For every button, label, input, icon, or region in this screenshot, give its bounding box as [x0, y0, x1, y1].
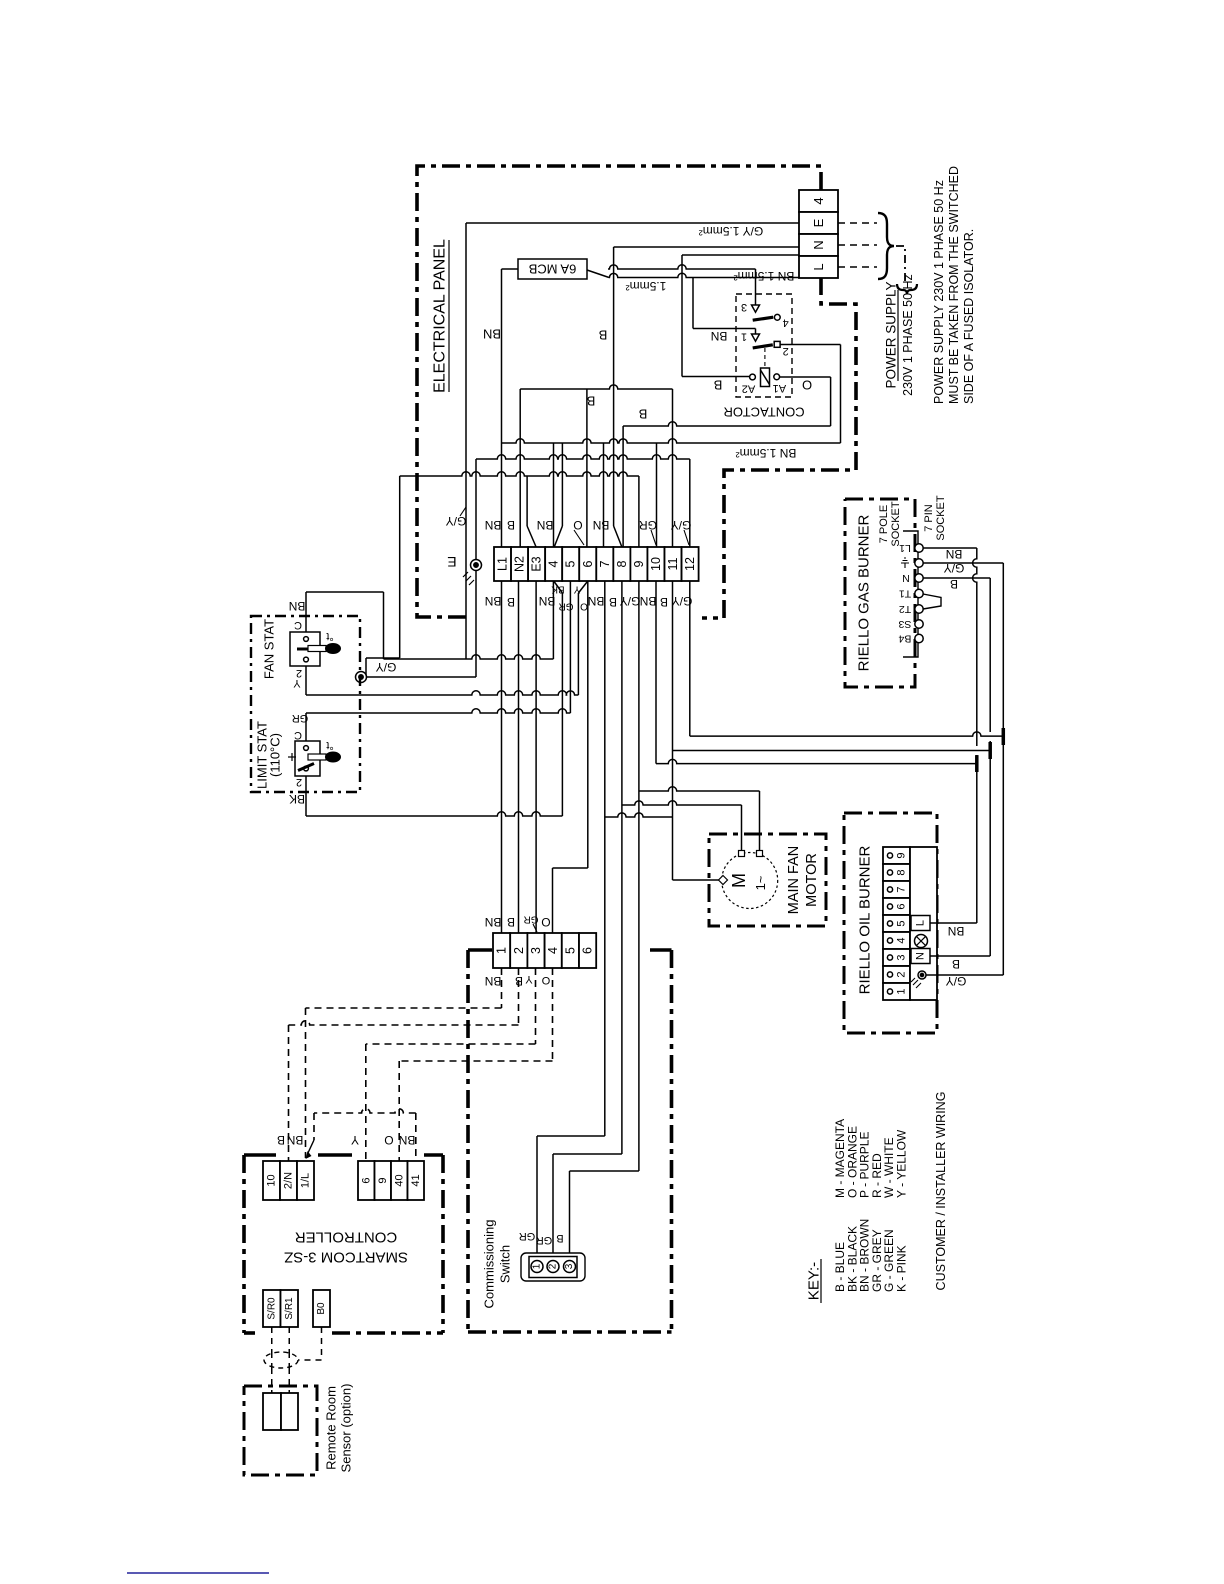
svg-text:ELECTRICAL PANEL: ELECTRICAL PANEL: [432, 239, 449, 393]
dashed wires to sensor: [271, 1327, 273, 1352]
svg-text:T2: T2: [899, 603, 911, 615]
svg-text:3: 3: [529, 947, 543, 954]
wire bus 659: [384, 655, 554, 659]
commissioning terminals: [531, 1261, 543, 1273]
riello oil burner dash-dot box: [844, 813, 937, 1033]
svg-text:CUSTOMER / INSTALLER WIRING: CUSTOMER / INSTALLER WIRING: [934, 1092, 948, 1291]
svg-text:Commissioning: Commissioning: [482, 1220, 497, 1309]
wire cell4 top drop: [553, 443, 555, 547]
dashed link 41 to 1/L: [314, 1109, 416, 1113]
svg-text:RIELLO OIL BURNER: RIELLO OIL BURNER: [857, 846, 874, 995]
main fan motor circle: [722, 853, 778, 909]
svg-text:GR: GR: [536, 1234, 553, 1246]
wire E3 down to strip2 cell3: [535, 581, 537, 933]
commissioning switch body: [521, 1253, 585, 1281]
gas T1 T2 jumper: [923, 594, 941, 609]
oil lamp: [915, 935, 928, 948]
wire earth link to ring: [362, 676, 476, 678]
svg-text:K - PINK: K - PINK: [895, 1245, 909, 1292]
svg-text:B: B: [556, 1232, 563, 1244]
svg-text:B: B: [507, 595, 515, 609]
svg-text:N: N: [902, 572, 910, 584]
svg-text:BN: BN: [287, 1133, 304, 1147]
svg-text:2: 2: [512, 947, 526, 954]
fan stat switch: [290, 632, 320, 666]
wire bus Hd earth lower: [400, 472, 639, 476]
svg-text:SOCKET: SOCKET: [890, 501, 902, 547]
gas socket bracket: [903, 531, 918, 657]
svg-text:A2: A2: [742, 383, 755, 395]
wire N terminal to B drop: [614, 246, 799, 248]
svg-text:3: 3: [741, 301, 747, 313]
svg-text:MUST BE TAKEN FROM THE SWITCHE: MUST BE TAKEN FROM THE SWITCHED: [947, 166, 961, 404]
wire L1 down to strip2 cell1: [501, 581, 503, 933]
svg-text:B: B: [277, 1133, 285, 1147]
svg-text:BN: BN: [593, 518, 610, 532]
svg-text:BK: BK: [289, 792, 305, 806]
wire oil earth: [926, 974, 1003, 976]
svg-text:BN: BN: [537, 518, 554, 532]
svg-text:7: 7: [598, 560, 612, 567]
wire cell6 O down to strip2 cell4: [587, 581, 589, 868]
svg-text:8: 8: [615, 560, 629, 567]
svg-text:GR: GR: [524, 914, 539, 925]
svg-text:B: B: [952, 957, 960, 971]
smartcom dash-dot box: [244, 1153, 276, 1157]
svg-text:E: E: [811, 218, 826, 227]
wire MCB to L1 vertical: [502, 268, 519, 270]
svg-text:L1: L1: [899, 542, 911, 554]
svg-text:G/Y: G/Y: [944, 561, 965, 575]
svg-text:6: 6: [581, 947, 595, 954]
svg-text:B4: B4: [898, 633, 911, 645]
contactor coil A2 A1: [761, 368, 770, 387]
svg-text:Y: Y: [293, 677, 301, 689]
power supply dashed leads: [838, 222, 877, 224]
smartcom strip B: [358, 1161, 375, 1200]
svg-text:GR: GR: [519, 1230, 536, 1242]
svg-text:4: 4: [896, 937, 908, 943]
power terminal strip L N E 4: [799, 190, 838, 212]
earth ring G/Y: [356, 672, 367, 683]
svg-text:BN: BN: [485, 974, 502, 988]
svg-text:C: C: [294, 729, 302, 741]
svg-text:2: 2: [296, 776, 302, 788]
contactor linkage: [764, 348, 766, 368]
svg-text:N2: N2: [513, 556, 527, 572]
svg-text:5: 5: [564, 560, 578, 567]
svg-text:G/Y 1.5mm²: G/Y 1.5mm²: [699, 224, 763, 238]
wire contactor feed: [608, 265, 756, 269]
limit stat switch: [295, 741, 320, 776]
svg-text:Sensor (option): Sensor (option): [339, 1384, 354, 1473]
svg-text:(110°C): (110°C): [268, 733, 283, 777]
svg-text:SMARTCOM 3-SZ: SMARTCOM 3-SZ: [284, 1249, 408, 1266]
wire burner BN vertical: [973, 548, 977, 746]
wire bus H2 coil to cell 8: [623, 422, 831, 426]
svg-text:O: O: [541, 974, 550, 986]
svg-text:Y: Y: [525, 973, 533, 985]
earth stud E: [475, 459, 477, 677]
svg-text:41: 41: [410, 1174, 422, 1186]
dashed wire strip2-1 to 1/L: [501, 968, 503, 1008]
wire cell12 earth to burners: [689, 581, 691, 736]
svg-text:C: C: [294, 619, 302, 631]
svg-text:2: 2: [548, 1263, 559, 1269]
svg-text:POWER SUPPLY: POWER SUPPLY: [884, 281, 899, 388]
svg-text:°t: °t: [326, 630, 333, 642]
svg-text:S3: S3: [898, 618, 911, 630]
svg-text:M: M: [729, 873, 749, 888]
svg-text:SOCKET: SOCKET: [935, 495, 947, 541]
main terminal strip L1-12: [494, 547, 511, 581]
svg-text:B: B: [714, 378, 723, 393]
svg-text:10: 10: [649, 557, 663, 571]
svg-text:O: O: [580, 601, 588, 612]
svg-text:BN 1.5mm²: BN 1.5mm²: [736, 446, 797, 460]
svg-text:BN 1.5mm²: BN 1.5mm²: [734, 269, 795, 283]
svg-text:E3: E3: [530, 556, 544, 571]
svg-text:4: 4: [547, 560, 561, 567]
svg-text:1: 1: [532, 1263, 543, 1269]
svg-text:BN: BN: [399, 1133, 416, 1147]
svg-text:B: B: [587, 394, 596, 409]
svg-text:2/N: 2/N: [283, 1172, 295, 1189]
power supply dash-dot link: [896, 246, 905, 283]
wire burner B vertical: [989, 578, 991, 732]
svg-text:G/Y: G/Y: [376, 660, 397, 674]
svg-text:B: B: [599, 328, 608, 343]
svg-text:7: 7: [896, 886, 908, 892]
contactor contact 1-2: [755, 329, 757, 335]
wire bus Ha switched live: [502, 439, 841, 443]
svg-text:GR: GR: [639, 518, 657, 532]
svg-text:B: B: [507, 518, 515, 532]
svg-text:BN: BN: [588, 594, 605, 608]
svg-text:O: O: [384, 1133, 393, 1147]
dashed wire strip2-3 to 6: [535, 968, 537, 1044]
svg-text:BN: BN: [711, 329, 728, 343]
svg-text:GR: GR: [559, 601, 574, 612]
svg-text:9: 9: [632, 560, 646, 567]
wire motor feeds: [605, 813, 673, 817]
terminal strip 1-6: [493, 933, 510, 968]
svg-text:BN: BN: [485, 915, 502, 929]
wire limit stat C: [305, 713, 307, 741]
svg-text:8: 8: [896, 869, 908, 875]
svg-text:1: 1: [495, 947, 509, 954]
svg-text:MAIN FAN: MAIN FAN: [786, 846, 802, 914]
svg-text:4: 4: [811, 197, 826, 204]
svg-text:N: N: [915, 952, 927, 960]
power supply brace: [878, 213, 894, 279]
svg-text:FAN STAT: FAN STAT: [262, 619, 277, 679]
svg-text:G/Y: G/Y: [946, 974, 967, 988]
svg-text:L1: L1: [496, 557, 510, 571]
svg-text:6A MCB: 6A MCB: [529, 262, 577, 277]
svg-text:1.5mm²: 1.5mm²: [626, 279, 667, 293]
electrical panel dash-dot border: [417, 166, 856, 618]
svg-text:3: 3: [896, 954, 908, 960]
oil burner strip: [883, 847, 910, 864]
wire contactor 1 to live: [693, 328, 756, 330]
wire cell4 diagonal drop: [561, 443, 563, 526]
wire cell9 down commissioning 3: [638, 581, 640, 1171]
svg-text:KEY:-: KEY:-: [806, 1262, 823, 1300]
svg-text:B0: B0: [316, 1302, 327, 1315]
svg-text:7 PIN: 7 PIN: [923, 504, 935, 532]
oil L cell: [911, 916, 930, 931]
svg-text:O: O: [541, 915, 550, 929]
wire cell7 top drop: [603, 443, 605, 547]
svg-text:N: N: [811, 240, 826, 249]
svg-text:B: B: [660, 595, 668, 609]
svg-text:11: 11: [666, 557, 680, 570]
svg-text:5: 5: [896, 920, 908, 926]
svg-text:3: 3: [564, 1263, 575, 1269]
svg-text:Switch: Switch: [498, 1245, 513, 1283]
svg-text:BN: BN: [485, 518, 502, 532]
power supply lower brace: [897, 284, 917, 295]
wire cell8 down commissioning 2: [621, 581, 623, 1154]
svg-text:G/Y: G/Y: [620, 594, 641, 608]
svg-text:2: 2: [896, 971, 908, 977]
svg-text:T1: T1: [899, 588, 911, 600]
svg-text:1: 1: [896, 988, 908, 994]
svg-text:L: L: [915, 920, 927, 926]
wire cell10 top drop: [656, 443, 658, 547]
svg-text:BN: BN: [485, 594, 502, 608]
dashed wire strip2-2 to 2/N: [518, 968, 520, 1025]
svg-text:1: 1: [741, 331, 747, 343]
wire E terminal earth lead: [466, 222, 799, 224]
svg-text:O: O: [802, 378, 812, 393]
svg-text:L: L: [811, 263, 826, 270]
wire cell11 neutral down to motor: [672, 581, 674, 880]
svg-text:230V 1 PHASE 50 Hz: 230V 1 PHASE 50 Hz: [901, 274, 915, 396]
svg-text:12: 12: [683, 557, 697, 571]
svg-text:7 POLE: 7 POLE: [878, 505, 890, 544]
wire neutral to burners: [673, 750, 991, 752]
contactor dashed box: [736, 294, 792, 397]
wire oil L: [930, 922, 977, 924]
svg-text:Y - YELLOW: Y - YELLOW: [895, 1129, 909, 1198]
wire contactor A1 loop: [780, 376, 831, 378]
svg-text:S/R0: S/R0: [266, 1297, 277, 1320]
svg-text:SIDE OF A FUSED ISOLATOR.: SIDE OF A FUSED ISOLATOR.: [962, 229, 976, 404]
svg-text:B: B: [507, 915, 515, 929]
dashed wire strip2-4 to 40: [552, 968, 554, 1061]
svg-text:BN: BN: [483, 327, 501, 342]
wire E3 drop: [526, 476, 528, 526]
wire MCB to L terminal: [587, 270, 609, 278]
svg-text:A1: A1: [773, 382, 786, 394]
main fan motor dash-dot box: [709, 834, 826, 926]
smartcom strip C: [263, 1290, 281, 1327]
svg-text:RIELLO GAS BURNER: RIELLO GAS BURNER: [856, 514, 873, 671]
svg-text:POWER SUPPLY 230V 1 PHASE 50 H: POWER SUPPLY 230V 1 PHASE 50 Hz: [932, 180, 946, 404]
smartcom strip A: [263, 1161, 280, 1200]
svg-text:BN: BN: [946, 547, 963, 561]
svg-text:1/L: 1/L: [300, 1173, 312, 1188]
remote room sensor box: [244, 1386, 317, 1475]
svg-text:S/R1: S/R1: [284, 1297, 295, 1320]
svg-text:4: 4: [546, 947, 560, 954]
motor terminal squares: [739, 851, 745, 857]
stats dashed box: [251, 616, 360, 792]
svg-text:B: B: [950, 577, 958, 591]
svg-text:9: 9: [377, 1177, 389, 1183]
footer rule: [127, 1572, 269, 1574]
svg-text:G/Y: G/Y: [446, 514, 467, 528]
svg-text:B: B: [609, 595, 617, 609]
svg-text:10: 10: [266, 1174, 278, 1186]
svg-text:°t: °t: [326, 739, 333, 751]
wire gas N B: [923, 577, 990, 579]
riello gas burner dash-dot box: [845, 499, 915, 687]
oil earth terminal: [918, 971, 926, 979]
wire oil N: [930, 955, 990, 957]
svg-text:O: O: [573, 518, 582, 532]
wire cell7 down commissioning 1: [604, 581, 606, 1136]
svg-text:4: 4: [783, 316, 789, 328]
MCB 6A box: [518, 259, 587, 279]
contactor contact 3-4: [755, 296, 757, 305]
svg-text:9: 9: [896, 852, 908, 858]
wire gas E GY: [923, 562, 1003, 564]
sensor terminals: [263, 1393, 281, 1430]
wire fan stat C: [305, 592, 307, 632]
svg-text:5: 5: [563, 947, 577, 954]
svg-text:2: 2: [783, 345, 789, 357]
commissioning dash-dot box: [468, 948, 492, 952]
svg-text:E: E: [447, 554, 456, 570]
svg-text:Remote Room: Remote Room: [324, 1386, 339, 1470]
svg-text:40: 40: [393, 1174, 405, 1186]
svg-text:6: 6: [360, 1177, 372, 1183]
wire N2 down to strip2 cell2: [518, 581, 520, 933]
wire contactor 2 switched live: [780, 344, 841, 346]
svg-text:BN: BN: [640, 594, 657, 608]
svg-text:6: 6: [581, 560, 595, 567]
svg-text:BN: BN: [289, 599, 306, 613]
wire N terminal to contactor coil: [682, 254, 799, 256]
wire burner GY vertical: [1002, 563, 1004, 975]
svg-text:CONTACTOR: CONTACTOR: [723, 405, 804, 420]
wire gas L1 BN: [923, 547, 977, 549]
svg-text:Y: Y: [351, 1133, 359, 1147]
svg-text:G/Y: G/Y: [671, 518, 692, 532]
wire bus H1 neutral: [520, 385, 672, 389]
svg-text:6: 6: [896, 903, 908, 909]
wire earth stub: [365, 658, 367, 677]
svg-text:MOTOR: MOTOR: [804, 853, 820, 907]
wire cell10 live to burners: [655, 581, 657, 764]
wire bus Hc earth upper: [476, 455, 690, 459]
sensor junction ellipse: [264, 1352, 298, 1368]
svg-text:CONTROLLER: CONTROLLER: [295, 1229, 398, 1246]
svg-text:B: B: [639, 407, 648, 422]
svg-text:1~: 1~: [753, 875, 768, 890]
svg-text:BN: BN: [948, 924, 965, 938]
oil N cell: [911, 949, 930, 964]
